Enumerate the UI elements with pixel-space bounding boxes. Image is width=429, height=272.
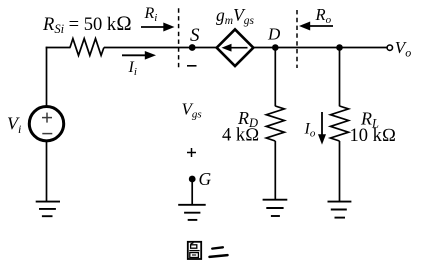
resistor RD (vertical zigzag): [266, 106, 284, 141]
resistor RL (vertical zigzag): [331, 106, 349, 141]
node D dot: [272, 44, 279, 51]
node S dot: [189, 44, 196, 51]
node G dot: [189, 176, 196, 183]
ground symbol at RD: [263, 200, 288, 216]
minus sign inside Vi: [42, 133, 52, 135]
svg-text:G: G: [199, 169, 212, 189]
dependent current source gmVgs (diamond): [217, 29, 254, 66]
caption character 二 (two): [210, 247, 228, 257]
wire: top rail from RSi to diamond left vertex: [104, 47, 217, 49]
wire: top rail from diamond right vertex to output terminal: [253, 47, 387, 49]
arrow Io (points down): [321, 112, 323, 137]
svg-text:S: S: [190, 25, 200, 46]
independent source Vi (circle): [29, 107, 63, 141]
caption character 圖 (figure): [188, 242, 201, 259]
wire: RL bottom to ground: [339, 141, 341, 202]
minus sign below S (Vgs polarity): [187, 65, 197, 67]
wire: RD bottom to ground: [274, 141, 276, 200]
ground symbol at RL: [328, 202, 352, 218]
arrow Ro (points left at dashed line): [309, 25, 334, 27]
wire: top rail from left corner to resistor RSi: [46, 47, 71, 49]
ground symbol at Vi: [36, 202, 60, 217]
wire: left vertical from top rail to Vi source: [46, 47, 48, 106]
wire: junction down to RL: [339, 48, 341, 107]
arrow Ii (points right, under wire): [122, 54, 147, 56]
wire: from D down to RD: [274, 48, 276, 107]
dashed boundary line at node D (output port): [296, 10, 298, 68]
plus sign inside Vi: [42, 113, 52, 123]
svg-text:D: D: [267, 25, 281, 44]
ground symbol at G: [178, 205, 206, 220]
junction dot at RL top: [336, 44, 343, 51]
arrow Ri (points right at dashed line): [141, 26, 165, 28]
svg-text:4 kΩ: 4 kΩ: [222, 126, 259, 146]
svg-text:10 kΩ: 10 kΩ: [350, 126, 397, 146]
resistor RSi (horizontal zigzag): [70, 39, 104, 56]
wire: stub from G down to ground: [191, 180, 193, 205]
dashed boundary line at node S (input port): [178, 8, 180, 69]
output terminal (open circle): [387, 45, 392, 50]
wire: Vi bottom to ground: [46, 141, 48, 202]
arrow inside diamond (points left): [228, 47, 248, 49]
plus sign above G (Vgs polarity): [187, 152, 196, 154]
